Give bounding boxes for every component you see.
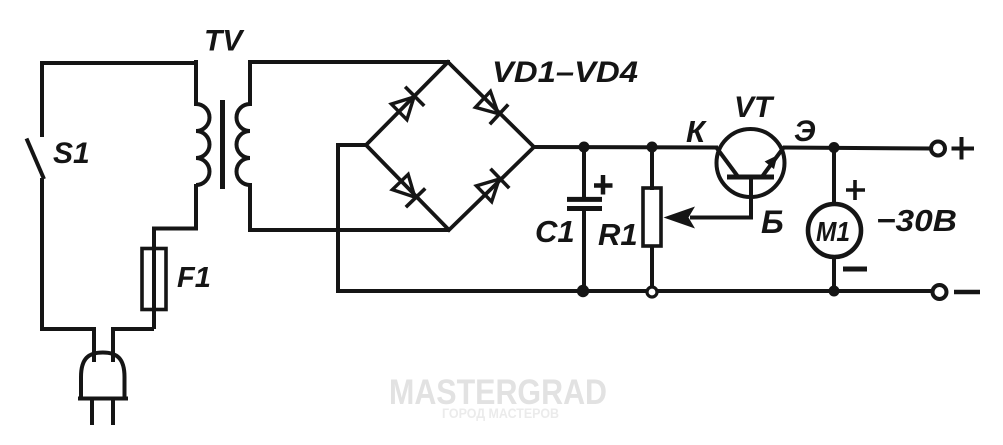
wire bridge left vertex down to bottom rail — [338, 145, 368, 293]
transformer TV secondary winding — [237, 60, 251, 232]
minus sign at terminal — [954, 290, 980, 295]
svg-text:F1: F1 — [177, 262, 211, 294]
svg-text:ГОРОД МАСТЕРОВ: ГОРОД МАСТЕРОВ — [442, 406, 559, 421]
junction node C1 bottom — [577, 285, 589, 297]
output terminal plus — [931, 142, 945, 156]
svg-text:R1: R1 — [598, 217, 638, 252]
diode bridge frame — [366, 62, 534, 230]
diode VD2 — [474, 89, 509, 124]
wire secondary top to bridge — [248, 60, 450, 64]
svg-text:VT: VT — [734, 91, 775, 124]
transistor VT — [716, 129, 785, 197]
resistor R1 (variable) — [643, 147, 661, 292]
switch S1 blade — [27, 139, 45, 180]
svg-text:М1: М1 — [816, 216, 850, 247]
bottom rail — [336, 289, 932, 293]
M1 minus sign — [843, 267, 867, 272]
diode VD3 — [391, 173, 426, 208]
svg-text:−30В: −30В — [876, 203, 957, 238]
base arrow to R1 wiper — [664, 207, 696, 229]
top rail right segment (transistor to terminal) — [783, 148, 932, 149]
transistor base lead — [690, 177, 751, 218]
svg-text:Б: Б — [761, 204, 784, 240]
wire secondary bottom to bridge — [248, 228, 450, 232]
diode VD4 — [475, 169, 510, 204]
wire bottom-left horizontal to plug — [40, 329, 94, 362]
capacitor C1 — [567, 147, 602, 292]
svg-text:C1: C1 — [535, 214, 575, 249]
wire fuse top jog to transformer primary — [154, 184, 196, 230]
svg-text:VD1–VD4: VD1–VD4 — [492, 56, 638, 89]
C1 plus sign — [594, 175, 613, 195]
motor M1 — [808, 147, 861, 292]
junction node R1 bottom (open) — [647, 287, 657, 297]
fuse F1 — [142, 229, 166, 329]
mains plug — [78, 353, 128, 426]
junction node R1 top — [647, 142, 658, 153]
svg-text:S1: S1 — [53, 137, 90, 170]
plus sign at terminal — [952, 137, 975, 160]
transformer TV primary winding — [196, 60, 210, 185]
top rail left segment (bridge to transistor) — [532, 145, 718, 150]
junction node M1 bottom — [829, 286, 840, 297]
svg-text:Э: Э — [794, 115, 816, 148]
M1 plus sign — [846, 180, 865, 200]
svg-text:К: К — [686, 114, 707, 149]
wire left vertical lower (switch to bottom) — [40, 178, 44, 331]
wire fuse to plug — [113, 329, 154, 362]
wire top-left horizontal — [40, 61, 197, 65]
junction node M1 top — [829, 142, 840, 153]
diode VD1 — [390, 87, 425, 122]
wire left vertical upper (to switch) — [40, 61, 44, 137]
output terminal minus — [933, 285, 947, 299]
junction node C1 top — [579, 142, 590, 153]
svg-text:TV: TV — [204, 25, 245, 58]
transformer core — [220, 100, 225, 189]
